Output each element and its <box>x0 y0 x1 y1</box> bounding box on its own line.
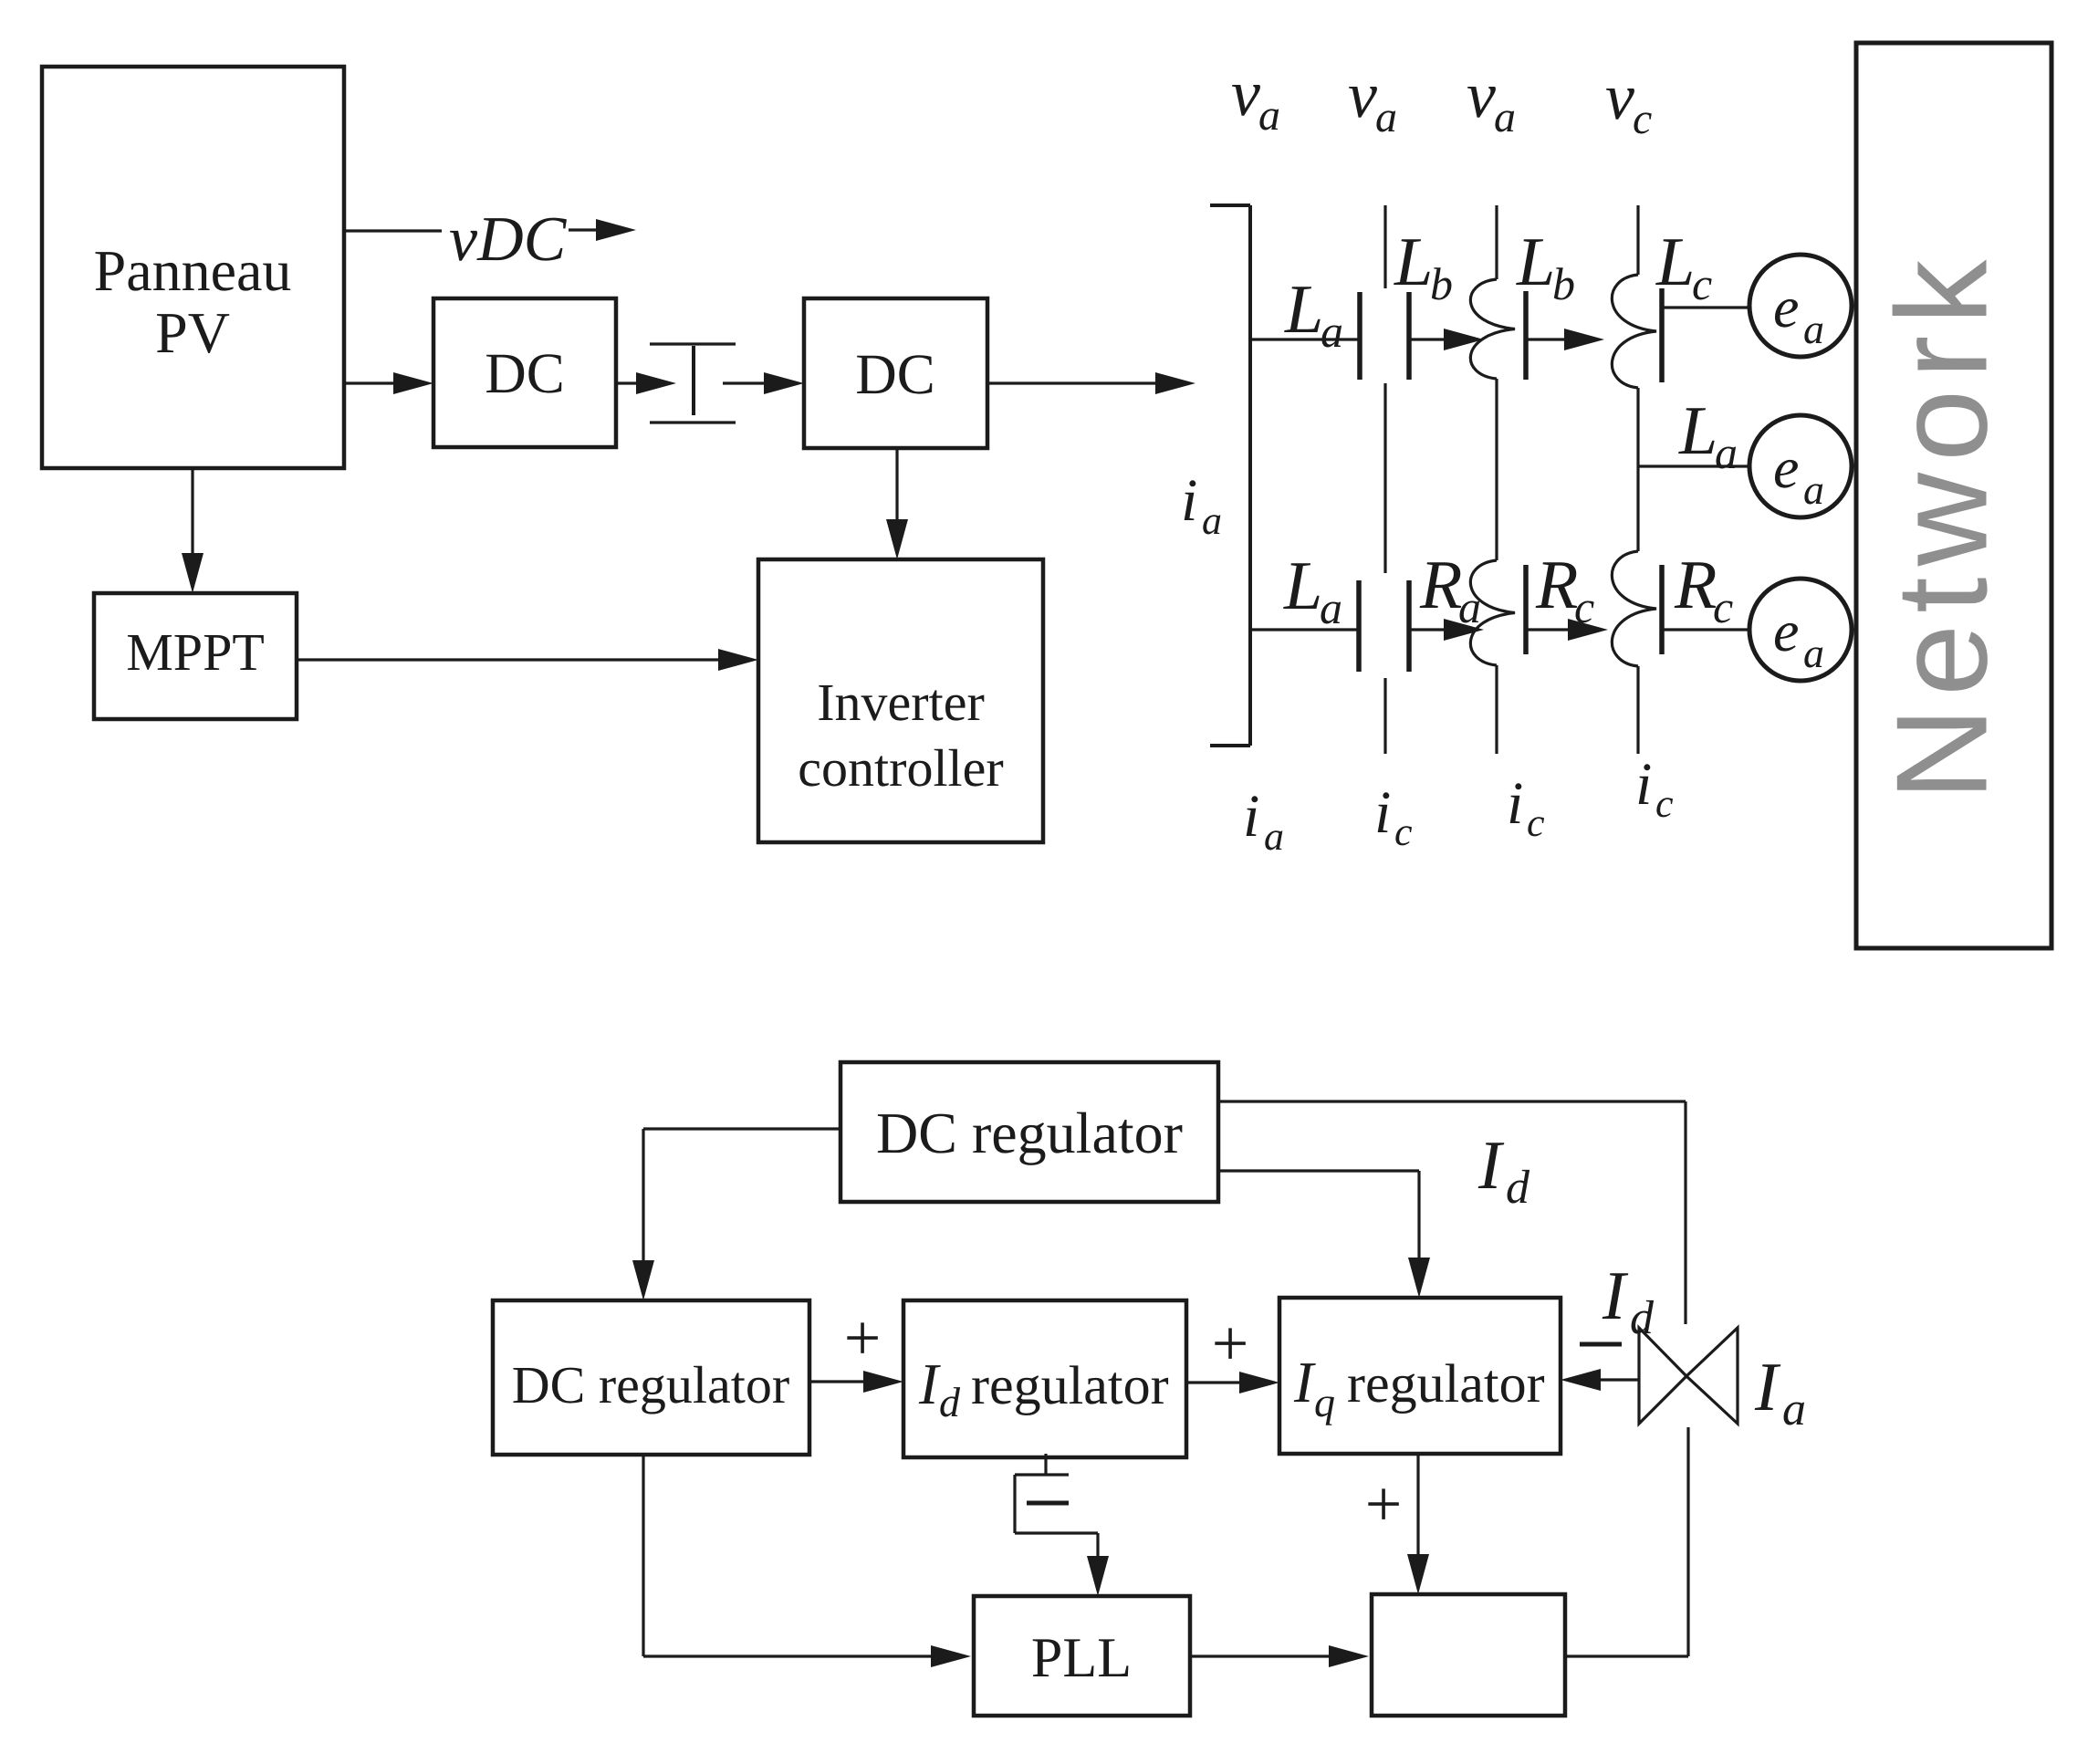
svg-text:a: a <box>1264 814 1284 859</box>
inductor column D lower coil <box>1612 551 1656 666</box>
svg-text:R: R <box>1674 547 1717 623</box>
bowtie transducer symbol <box>1639 1328 1686 1424</box>
block: transform (unlabeled) <box>1372 1594 1565 1716</box>
plate column D row1 <box>1659 288 1665 382</box>
svg-text:controller: controller <box>798 738 1003 798</box>
arrow row1 into inductor Lb <box>1409 338 1449 340</box>
block: DC regulator (reference) <box>840 1062 1218 1202</box>
svg-text:regulator: regulator <box>971 1355 1169 1415</box>
wire bowtie down to feedback <box>1686 1427 1689 1656</box>
svg-text:a: a <box>1258 91 1280 140</box>
svg-text:Panneau: Panneau <box>94 238 292 303</box>
wire DC regulator to bowtie (Id feed) <box>1218 1100 1686 1102</box>
svg-text:i: i <box>1374 779 1391 846</box>
svg-text:i: i <box>1507 770 1523 837</box>
svg-text:e: e <box>1773 275 1799 339</box>
arrow DC1 to link symbol <box>616 381 642 384</box>
arrow vDC <box>569 228 601 231</box>
block: DC converter 1 <box>433 298 616 447</box>
arrow PLL to transform block <box>1190 1654 1334 1657</box>
block: Id regulator <box>903 1300 1186 1457</box>
wire row2 from column D to source ea2 <box>1638 464 1750 467</box>
arrow into PLL from integrator tap <box>1096 1533 1099 1561</box>
svg-text:PV: PV <box>155 300 230 365</box>
svg-text:q: q <box>1314 1379 1335 1425</box>
wire DC regulator to Iq regulator top <box>1218 1169 1419 1172</box>
svg-text:c: c <box>1713 581 1733 632</box>
wire PV down to MPPT <box>191 468 193 558</box>
svg-text:d: d <box>939 1379 961 1425</box>
DC link capacitor symbol <box>650 342 736 345</box>
svg-text:d: d <box>1630 1292 1655 1344</box>
svg-text:I: I <box>1602 1258 1629 1334</box>
svg-text:MPPT: MPPT <box>126 622 265 682</box>
wire DC2 down to inverter controller <box>895 448 898 525</box>
arrow row1 into inductor Lc <box>1526 338 1570 340</box>
svg-text:a: a <box>1803 306 1824 352</box>
svg-text:c: c <box>1633 95 1652 143</box>
svg-text:Network: Network <box>1870 249 2015 801</box>
wire row3 to source ea3 <box>1662 628 1750 631</box>
svg-text:i: i <box>1635 751 1652 818</box>
svg-text:a: a <box>1320 582 1342 633</box>
inductor column C upper coil <box>1470 279 1515 379</box>
svg-text:Inverter: Inverter <box>817 673 985 732</box>
svg-text:+: + <box>1212 1307 1249 1380</box>
svg-text:v: v <box>1605 60 1634 133</box>
svg-text:c: c <box>1692 258 1712 309</box>
svg-text:L: L <box>1284 271 1323 348</box>
svg-text:I: I <box>1477 1127 1505 1204</box>
svg-text:DC regulator: DC regulator <box>512 1355 789 1414</box>
capacitor plates column B row3 <box>1356 580 1362 672</box>
plate column C row3 <box>1523 565 1529 654</box>
minus sign at Iq regulator right input <box>1580 1342 1622 1347</box>
bracket node (inverter output bus) <box>1248 205 1252 746</box>
svg-text:d: d <box>1506 1162 1530 1214</box>
svg-text:DC: DC <box>485 341 565 405</box>
svg-text:c: c <box>1655 781 1674 826</box>
block: Panneau PV <box>42 67 344 468</box>
svg-text:v: v <box>1467 58 1496 131</box>
svg-text:+: + <box>1365 1467 1403 1540</box>
plate column C row1 <box>1523 291 1529 380</box>
wire row1 to source ea1 <box>1662 306 1750 308</box>
svg-text:e: e <box>1773 435 1799 500</box>
svg-text:a: a <box>1782 1383 1806 1435</box>
block: MPPT <box>94 593 297 719</box>
svg-text:i: i <box>1243 783 1259 850</box>
svg-text:L: L <box>1516 224 1555 300</box>
svg-text:L: L <box>1394 224 1433 300</box>
wire PV to DC1 with arrow <box>344 381 399 384</box>
svg-text:regulator: regulator <box>1347 1353 1545 1414</box>
svg-text:I: I <box>1754 1349 1781 1425</box>
svg-text:a: a <box>1803 630 1824 676</box>
column B phase conductor segments <box>1383 205 1386 288</box>
svg-text:L: L <box>1283 548 1322 624</box>
svg-text:b: b <box>1430 258 1453 309</box>
wire DC regulator to left regulator <box>643 1127 840 1130</box>
source e_a phase 2 <box>1749 415 1852 517</box>
arrow Iq regulator down to transform block <box>1416 1454 1419 1560</box>
arrow row3 into next coil <box>1526 628 1573 631</box>
svg-text:I: I <box>1293 1350 1316 1414</box>
integrator tap below Id regulator <box>1044 1454 1047 1475</box>
svg-text:I: I <box>918 1352 941 1416</box>
source e_a phase 3 <box>1749 579 1852 681</box>
svg-text:a: a <box>1494 93 1516 141</box>
svg-text:c: c <box>1527 800 1545 845</box>
svg-text:a: a <box>1715 427 1738 478</box>
capacitor plates column B row1 <box>1357 292 1362 380</box>
block: PLL <box>974 1596 1190 1716</box>
column C conductor segments <box>1495 205 1498 279</box>
arrow link symbol to DC2 <box>723 381 769 384</box>
plate column D row3 <box>1659 565 1665 654</box>
arrow Id regulator to Iq regulator <box>1186 1381 1245 1383</box>
svg-text:vDC: vDC <box>449 204 568 275</box>
svg-text:b: b <box>1552 258 1575 309</box>
wire row1 bus to capacitor La <box>1250 338 1360 340</box>
svg-text:a: a <box>1321 306 1343 357</box>
svg-text:c: c <box>1394 809 1413 854</box>
svg-text:a: a <box>1375 93 1397 141</box>
source e_a phase 1 <box>1749 255 1852 357</box>
svg-text:a: a <box>1202 498 1222 543</box>
svg-text:a: a <box>1803 466 1824 513</box>
inductor column D upper coil <box>1612 275 1656 388</box>
svg-text:e: e <box>1773 599 1799 663</box>
arrow row3 into resistor coil <box>1409 628 1449 631</box>
svg-text:v: v <box>1348 58 1377 131</box>
wire DC2 to three-phase bridge with arrow <box>987 381 1161 384</box>
svg-text:L: L <box>1678 392 1717 469</box>
svg-text:DC regulator: DC regulator <box>876 1101 1183 1165</box>
block: DC regulator (voltage loop) <box>493 1300 809 1455</box>
wire vDC from PV <box>344 229 442 232</box>
arrow MPPT to inverter controller <box>297 658 724 661</box>
arrow DC regulator to Id regulator <box>809 1380 869 1383</box>
svg-text:PLL: PLL <box>1031 1627 1132 1689</box>
wire DC regulator down to PLL <box>642 1455 644 1656</box>
svg-text:+: + <box>844 1301 882 1374</box>
svg-text:R: R <box>1535 547 1578 623</box>
svg-text:i: i <box>1181 467 1197 534</box>
block: Inverter controller <box>758 559 1043 842</box>
block: DC converter 2 (inverter) <box>804 298 987 448</box>
svg-text:DC: DC <box>855 342 935 406</box>
column D conductor segments <box>1636 205 1639 275</box>
block: Iq regulator <box>1279 1298 1561 1454</box>
block: Network <box>1856 43 2051 948</box>
inductor column C lower coil <box>1470 560 1515 665</box>
arrow from bowtie into Iq regulator <box>1595 1378 1639 1381</box>
svg-text:R: R <box>1419 547 1462 623</box>
svg-text:v: v <box>1231 57 1260 130</box>
wire row3 bus to capacitor La <box>1250 628 1359 631</box>
